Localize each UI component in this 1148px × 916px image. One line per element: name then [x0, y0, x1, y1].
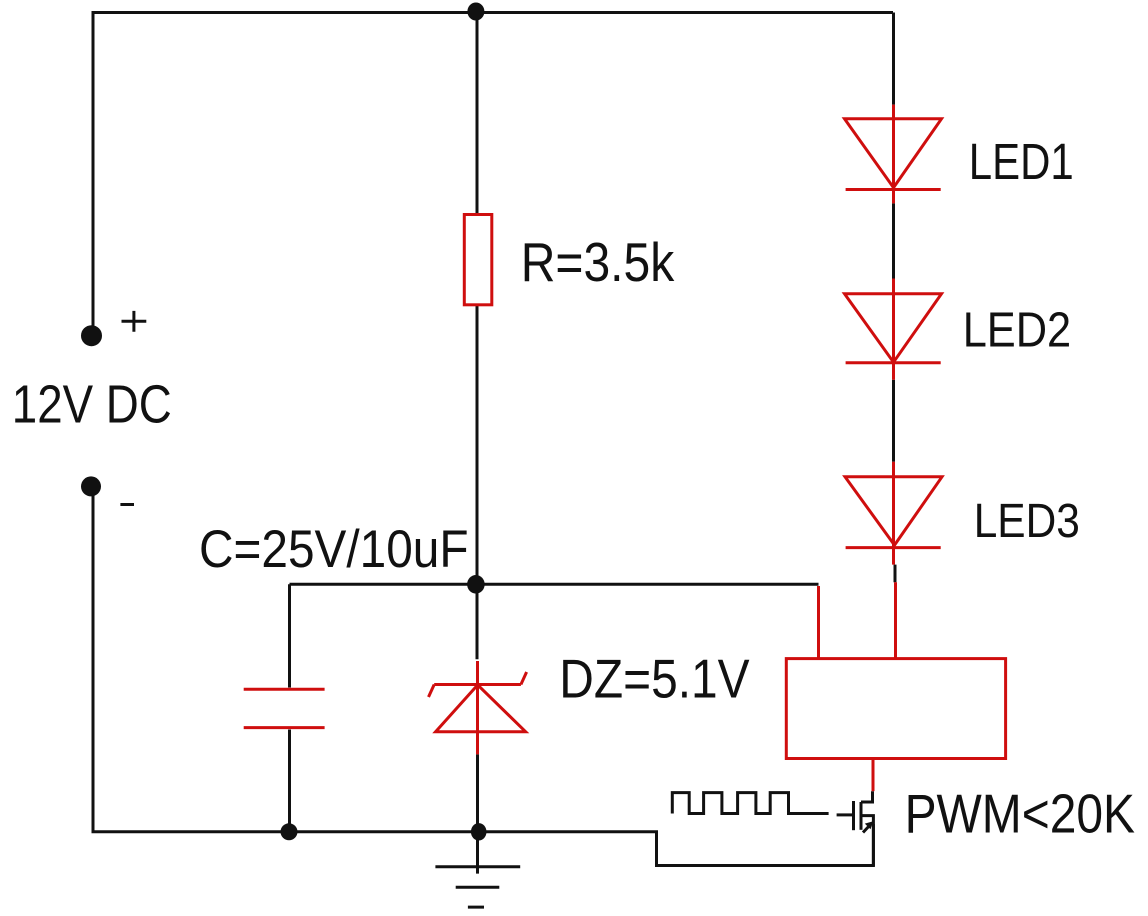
svg-text:12V DC: 12V DC	[12, 375, 172, 435]
svg-text:R=3.5k: R=3.5k	[521, 231, 675, 293]
svg-text:LED3: LED3	[974, 495, 1080, 548]
svg-text:PWM<20K: PWM<20K	[905, 783, 1136, 845]
svg-text:LED2: LED2	[963, 304, 1071, 358]
svg-text:C=25V/10uF: C=25V/10uF	[199, 520, 469, 579]
svg-text:LED1: LED1	[969, 133, 1074, 190]
svg-text:DZ=5.1V: DZ=5.1V	[559, 647, 750, 709]
